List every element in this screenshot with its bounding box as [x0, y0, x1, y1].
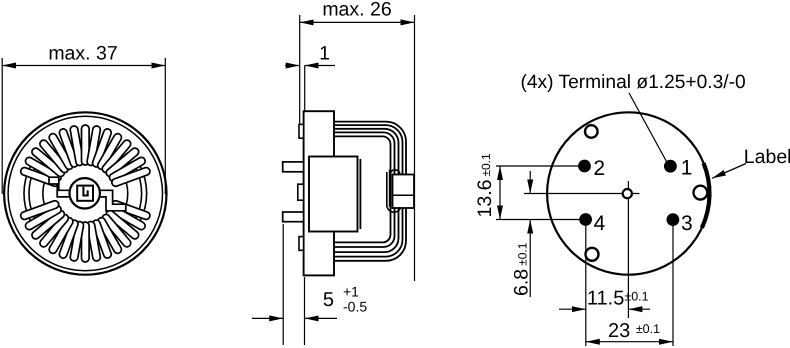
winding turns (lower group) — [111, 200, 151, 221]
svg-text:1: 1 — [319, 43, 330, 65]
svg-text:max. 26: max. 26 — [322, 0, 391, 21]
svg-text:3: 3 — [681, 212, 693, 235]
svg-text:+1: +1 — [343, 284, 359, 300]
label arrow — [712, 164, 746, 179]
terminal pin lower (side view) — [283, 212, 304, 222]
extension line left of max.26 (pin tip plane) — [299, 15, 301, 124]
winding separator bar right (stepped) — [99, 190, 126, 211]
extension line pin 4 column — [585, 226, 587, 346]
svg-text:max. 37: max. 37 — [48, 43, 117, 65]
svg-text:1: 1 — [681, 156, 693, 179]
leader line to pin 1 — [629, 93, 667, 162]
extension line right of max.37 — [164, 58, 166, 194]
extension line pin tip for 5mm — [282, 224, 284, 345]
extension line pin row 2 — [496, 165, 584, 167]
dimension 5 arrows — [252, 317, 283, 319]
dimension line 13.6 — [499, 166, 501, 220]
svg-text:Label: Label — [744, 146, 790, 168]
mounting hole top left — [585, 125, 598, 138]
svg-text:23 ±0.1: 23 ±0.1 — [608, 320, 660, 342]
mounting hole right — [694, 186, 708, 200]
dimension line max. 26 — [300, 21, 415, 23]
meander logo in hub — [77, 186, 93, 201]
mounting hole bottom left — [586, 248, 599, 261]
winding turns (upper group) — [20, 167, 60, 188]
svg-text:(4x) Terminal ø1.25+0.3/-0: (4x) Terminal ø1.25+0.3/-0 — [521, 72, 746, 93]
extension line for 1 mm standoff — [304, 66, 306, 112]
terminal pin upper (side view) — [283, 162, 304, 172]
center lines of center mark — [524, 193, 640, 195]
outer case circle — [4, 112, 166, 274]
terminal dot 3 — [667, 213, 680, 226]
core inner arc in left gap — [43, 180, 45, 206]
center mark — [623, 189, 632, 198]
standoff stub bottom — [299, 237, 304, 251]
case outline circle (bottom view) — [547, 112, 709, 274]
label arc on case edge — [702, 163, 710, 228]
core outer arc in left winding gap — [24, 167, 30, 221]
svg-text:-0.5: -0.5 — [343, 299, 367, 315]
base disc (flange) — [304, 111, 334, 275]
core block — [309, 157, 358, 232]
dimension 1 arrows — [285, 65, 300, 67]
svg-text:5: 5 — [323, 289, 334, 311]
core outer arc in right winding gap — [140, 167, 146, 221]
center boss stub — [298, 184, 304, 200]
cup seam tab — [393, 175, 415, 209]
innermost loop vertical beside core — [359, 159, 361, 229]
svg-text:6.8±0.1: 6.8±0.1 — [511, 242, 533, 296]
extension line left of max.37 — [1, 58, 3, 194]
svg-text:2: 2 — [593, 157, 605, 180]
extension line flange face for 5mm — [304, 277, 306, 345]
extension line pin 3 column — [672, 226, 674, 346]
extension line right of max.26 — [414, 15, 416, 281]
dimension 11.5 arrows — [559, 308, 586, 310]
svg-text:11.5±0.1: 11.5±0.1 — [587, 288, 649, 310]
standoff stub top — [299, 124, 304, 138]
svg-text:13.6±0.1: 13.6±0.1 — [474, 153, 496, 218]
terminal dot 2 — [578, 160, 591, 173]
dimension 6.8 arrows — [529, 171, 531, 194]
core inner arc in right gap — [126, 180, 128, 206]
svg-text:4: 4 — [594, 212, 606, 235]
terminal dot 4 — [579, 213, 592, 226]
terminal dot 1 — [664, 160, 677, 173]
center hub circle — [70, 178, 100, 208]
extension line pin row 4 — [496, 219, 585, 221]
inner rim circle — [8, 116, 162, 270]
winding loops around core (side view) — [334, 122, 406, 261]
dimension line 23 — [586, 341, 673, 343]
winding separator bar left (stepped) — [49, 177, 71, 197]
dimension line max. 37 — [2, 65, 165, 67]
